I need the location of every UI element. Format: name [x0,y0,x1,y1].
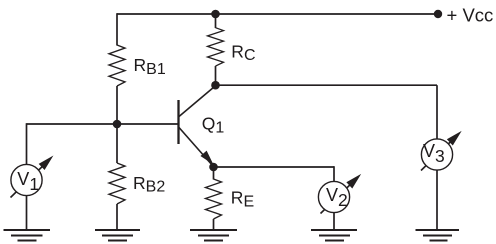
wire emitter node to V2 corner [214,166,335,168]
node emitter junction [209,163,218,172]
wire rail to RC [215,14,217,28]
wire RB1 to base node [116,86,118,124]
node rail-RC junction dot [211,10,220,19]
node Vcc terminal dot [434,10,442,18]
ground (RB2) [95,230,140,241]
ground (V3) [416,230,460,241]
wire top rail Vcc [117,13,438,15]
wire down to V1 [26,123,28,164]
voltmeter V1 [11,157,53,198]
wire down to V3 [436,85,438,139]
ground (V1) [4,230,51,241]
wire V3 to ground [436,170,438,231]
wire RE to ground [213,219,215,231]
ground (RE) [190,230,237,241]
voltmeter V3 [421,132,461,171]
wire base node to V1 corner [27,123,118,125]
wire base node to RB2 [116,124,118,163]
wire V2 to ground [333,213,335,231]
resistor RE [206,179,222,219]
wire emitter node to RE [213,167,215,180]
node base junction [113,120,122,129]
wire base node to Q1 base [117,123,179,125]
voltmeter V2 [318,175,360,214]
svg-text:+ Vcc: + Vcc [447,5,494,26]
wire left branch top (rail to RB1) [116,13,118,45]
resistor RB1 [109,45,125,86]
wire collector node to V3 corner [216,84,438,86]
node collector junction [211,81,220,90]
resistor RC [208,28,224,66]
wire RC to collector node [215,66,217,85]
wire V1 to ground [26,196,28,231]
transistor Q1 [179,87,215,166]
ground (V2) [311,230,357,241]
wire down to V2 [333,166,335,182]
resistor RB2 [109,163,125,204]
wire RB2 to ground [116,204,118,231]
